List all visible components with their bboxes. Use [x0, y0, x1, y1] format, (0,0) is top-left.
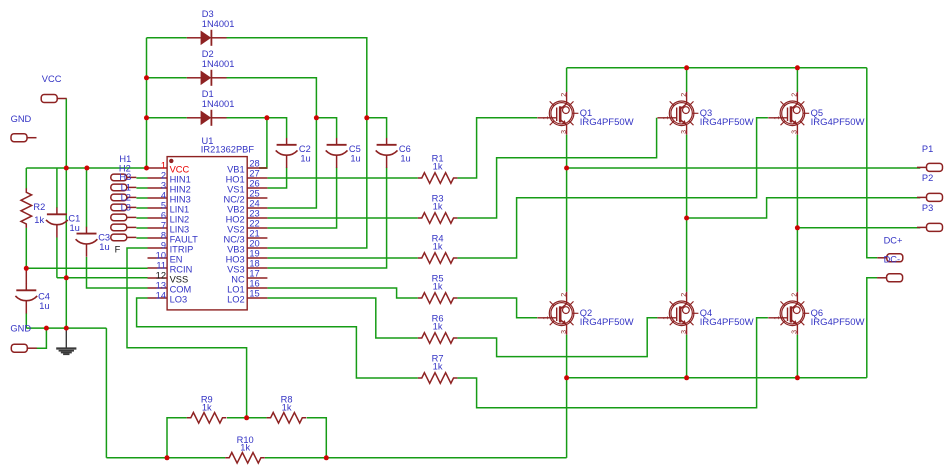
wire C1 bottom: [56, 238, 58, 278]
svg-text:15: 15: [249, 288, 259, 298]
svg-text:D2: D2: [202, 49, 214, 59]
wire VB3 branch to C6 top: [367, 118, 387, 138]
wire P3 line: [797, 227, 920, 229]
wire header pad LIN1: [136, 207, 147, 209]
svg-text:VS1: VS1: [227, 184, 245, 194]
pad header HIN3: [111, 194, 137, 201]
svg-text:18: 18: [249, 258, 259, 268]
wire VS1 C2 bottom to pin 26: [267, 168, 286, 189]
svg-text:2: 2: [561, 93, 568, 97]
junction emitter bus Q4: [684, 375, 689, 380]
svg-text:2: 2: [161, 170, 166, 180]
wire VCC horizontal to pin 1: [26, 167, 147, 169]
wire D2 anode: [147, 77, 187, 79]
U1 pin 3 stub: [148, 187, 168, 189]
svg-text:1k: 1k: [433, 242, 443, 252]
wire DC- rise: [867, 278, 878, 378]
capacitor C4: [15, 284, 37, 314]
U1 pin 21 stub: [247, 237, 267, 239]
resistor R9: [187, 413, 227, 424]
pad P3: [917, 223, 943, 231]
U1 pin 7 stub: [148, 227, 168, 229]
svg-text:P1: P1: [922, 144, 933, 154]
pad header LIN3: [111, 224, 137, 231]
wire header pad HIN1: [136, 177, 147, 179]
svg-text:C2: C2: [299, 144, 311, 154]
svg-text:D1: D1: [202, 89, 214, 99]
svg-text:3: 3: [561, 330, 568, 334]
wire D3 cathode leg: [226, 38, 366, 248]
wire D3 anode: [147, 37, 187, 39]
capacitor C3: [76, 227, 98, 257]
wire P1 line: [567, 167, 921, 169]
svg-text:HIN2: HIN2: [170, 184, 191, 194]
svg-text:1N4001: 1N4001: [202, 59, 235, 69]
svg-text:6: 6: [161, 210, 166, 220]
svg-text:C5: C5: [349, 144, 361, 154]
transistor Q4: [657, 292, 698, 335]
wire phase A node: [566, 135, 568, 292]
wire VS3 C6 bottom to pin 18: [267, 168, 386, 269]
svg-text:LO3: LO3: [170, 294, 188, 304]
svg-text:1k: 1k: [433, 162, 443, 172]
U1 pin 20 stub: [247, 247, 267, 249]
svg-text:1k: 1k: [34, 215, 44, 225]
svg-text:C6: C6: [399, 144, 411, 154]
svg-text:11: 11: [156, 260, 166, 270]
svg-text:COM: COM: [170, 284, 192, 294]
svg-text:LIN1: LIN1: [170, 204, 190, 214]
svg-text:NC/2: NC/2: [224, 194, 245, 204]
junction GND pad: [44, 326, 49, 331]
svg-text:L1: L1: [121, 183, 131, 193]
wire LO1 R5 to Q2 gate: [457, 298, 537, 318]
diode D2: [187, 70, 227, 86]
wire phase C upper: [796, 135, 798, 228]
capacitor C6: [376, 138, 398, 168]
wire RCIN pin 11: [26, 267, 147, 269]
svg-text:1: 1: [774, 316, 781, 320]
svg-text:23: 23: [249, 208, 259, 218]
wire header pad HIN3: [136, 197, 147, 199]
junction bottom bus R8: [324, 455, 329, 460]
ground earth symbol: [56, 328, 76, 354]
pad GND top: [11, 134, 37, 142]
U1 pin 25 stub: [247, 197, 267, 199]
svg-text:9: 9: [161, 240, 166, 250]
svg-text:LIN3: LIN3: [170, 224, 190, 234]
svg-text:L3: L3: [121, 203, 131, 213]
junction phase C: [795, 225, 800, 230]
wire phase C lower: [796, 228, 798, 292]
svg-text:1k: 1k: [433, 282, 443, 292]
junction VB1: [264, 115, 269, 120]
resistor R10: [225, 453, 265, 464]
svg-text:1: 1: [543, 316, 550, 320]
svg-text:1k: 1k: [202, 402, 212, 412]
svg-text:27: 27: [249, 168, 259, 178]
wire header pad FAULT: [136, 237, 147, 239]
svg-text:1k: 1k: [240, 442, 250, 452]
resistor R1: [418, 173, 458, 184]
junction emitter bus Q2: [564, 375, 569, 380]
U1 pin 4 stub: [148, 197, 168, 199]
U1 pin 19 stub: [247, 257, 267, 259]
junction GND earth: [64, 326, 69, 331]
svg-text:4: 4: [161, 190, 166, 200]
wire LO3 R7 to Q6 gate: [457, 318, 768, 408]
U1 pin 6 stub: [148, 217, 168, 219]
wire GND drop to bottom bus: [105, 328, 107, 458]
svg-text:IRG4PF50W: IRG4PF50W: [580, 117, 634, 128]
svg-text:IRG4PF50W: IRG4PF50W: [811, 317, 865, 328]
pad P1: [917, 163, 943, 171]
svg-text:3: 3: [792, 130, 799, 134]
wire Q4 emitter: [686, 335, 688, 378]
svg-text:VS2: VS2: [227, 224, 245, 234]
svg-text:DC+: DC+: [884, 235, 903, 245]
wire VCC diode rail: [146, 38, 148, 168]
junction VB3 C6: [364, 115, 369, 120]
wire Q6 emitter: [796, 335, 798, 378]
svg-text:LO1: LO1: [227, 284, 245, 294]
pad header LIN2: [111, 214, 137, 221]
svg-text:3: 3: [681, 330, 688, 334]
pad DC+: [877, 254, 903, 262]
junction VCC pad feed: [64, 166, 69, 171]
U1 pin 13 stub: [148, 287, 168, 289]
svg-text:H1: H1: [119, 154, 131, 164]
U1 pin 27 stub: [247, 177, 267, 179]
U1 pin 18 stub: [247, 267, 267, 269]
svg-text:D3: D3: [202, 9, 214, 19]
svg-text:P3: P3: [922, 203, 933, 213]
junction VB2 C5: [314, 115, 319, 120]
svg-text:IRG4PF50W: IRG4PF50W: [580, 317, 634, 328]
svg-text:VSS: VSS: [170, 274, 189, 284]
junction bus Q3: [684, 65, 689, 70]
svg-text:17: 17: [249, 268, 259, 278]
svg-text:2: 2: [681, 93, 688, 97]
wire phase B lower: [686, 218, 688, 292]
wire LO2 pin 15 to R6: [267, 298, 417, 338]
U1 pin 11 stub: [148, 267, 168, 269]
svg-text:R2: R2: [33, 202, 45, 212]
wire D1 cathode to C2 top: [226, 118, 286, 138]
junction C3 top: [84, 166, 89, 171]
svg-text:ITRIP: ITRIP: [170, 244, 194, 254]
wire R2 bottom to RCIN: [25, 228, 27, 269]
svg-text:FAULT: FAULT: [170, 234, 199, 244]
wire VSS pin 12 line: [57, 277, 148, 279]
svg-text:RCIN: RCIN: [170, 264, 193, 274]
svg-text:VCC: VCC: [42, 74, 62, 84]
svg-text:1u: 1u: [70, 223, 80, 233]
junction VSS C1: [64, 275, 69, 280]
wire C3 top lead: [86, 168, 88, 227]
junction bus Q5: [795, 65, 800, 70]
svg-text:HO3: HO3: [226, 254, 245, 264]
wire GND line: [26, 327, 106, 329]
svg-text:VB3: VB3: [227, 244, 245, 254]
resistor R7: [418, 373, 458, 384]
svg-text:IR21362PBF: IR21362PBF: [201, 145, 255, 155]
resistor R2: [21, 188, 32, 228]
svg-text:3: 3: [161, 180, 166, 190]
svg-text:3: 3: [792, 330, 799, 334]
wire D1 anode: [147, 117, 187, 119]
U1 pin 28 stub: [247, 167, 267, 169]
junction bottom bus R9: [165, 455, 170, 460]
pad P2: [917, 193, 943, 201]
U1 pin 5 stub: [148, 207, 168, 209]
U1 pin 2 stub: [148, 177, 168, 179]
wire top collector bus: [567, 67, 867, 69]
svg-text:2: 2: [792, 93, 799, 97]
resistor R3: [418, 213, 458, 224]
svg-text:EN: EN: [170, 254, 183, 264]
pad DC-: [877, 274, 903, 282]
svg-text:H3: H3: [119, 172, 131, 182]
svg-text:2: 2: [561, 293, 568, 297]
svg-text:GND: GND: [10, 324, 31, 334]
wire VS2 C5 bottom to pin 22: [267, 168, 336, 229]
wire phase B upper: [686, 135, 688, 218]
wire R2 top lead: [25, 168, 27, 189]
svg-text:1: 1: [161, 160, 166, 170]
pad GND bottom: [11, 344, 37, 352]
svg-text:1: 1: [543, 116, 550, 120]
wire HO3 R4 to Q5 gate: [457, 118, 768, 258]
junction VCC rail D2: [144, 75, 149, 80]
U1 pin 23 stub: [247, 217, 267, 219]
svg-text:2: 2: [681, 293, 688, 297]
svg-text:25: 25: [249, 188, 259, 198]
svg-text:IRG4PF50W: IRG4PF50W: [700, 117, 754, 128]
svg-text:LIN2: LIN2: [170, 214, 190, 224]
capacitor C5: [326, 138, 348, 168]
svg-text:L2: L2: [121, 193, 131, 203]
wire header pad HIN2: [136, 187, 147, 189]
svg-text:12: 12: [156, 270, 166, 280]
svg-text:1k: 1k: [433, 202, 443, 212]
U1 pin 10 stub: [148, 257, 168, 259]
svg-text:IRG4PF50W: IRG4PF50W: [700, 317, 754, 328]
wire VB2 branch to C5 top: [316, 118, 336, 138]
wire HO2 pin 23 to R3: [267, 217, 417, 219]
U1 pin 16 stub: [247, 287, 267, 289]
svg-text:1: 1: [774, 116, 781, 120]
pad header HIN1: [111, 174, 137, 181]
U1 pin 26 stub: [247, 187, 267, 189]
svg-text:HIN3: HIN3: [170, 194, 191, 204]
svg-text:NC: NC: [231, 274, 245, 284]
svg-text:DC-: DC-: [884, 255, 901, 265]
resistor R4: [418, 253, 458, 264]
svg-text:VS3: VS3: [227, 264, 245, 274]
wire pin 28 stub link: [259, 167, 267, 169]
wire HO3 pin 19 to R4: [267, 257, 417, 259]
wire C4 bottom to GND: [25, 313, 27, 328]
wire header pad LIN2: [136, 217, 147, 219]
svg-text:24: 24: [249, 198, 259, 208]
junction phase B: [684, 216, 689, 221]
pad VCC: [41, 95, 66, 103]
svg-text:14: 14: [156, 290, 166, 300]
svg-text:5: 5: [161, 200, 166, 210]
wire VCC pad feed: [65, 99, 67, 169]
pad header FAULT: [111, 234, 137, 241]
capacitor C4 top lead: [25, 268, 27, 284]
svg-text:P2: P2: [922, 173, 933, 183]
U1 pin 9 stub: [148, 247, 168, 249]
wire R8 right leg: [307, 418, 327, 458]
svg-text:16: 16: [249, 278, 259, 288]
svg-text:1u: 1u: [39, 301, 49, 311]
svg-text:LO2: LO2: [227, 294, 245, 304]
wire emitter sense drop: [566, 378, 568, 458]
transistor Q3: [657, 92, 698, 135]
U1 pin 15 stub: [247, 297, 267, 299]
diode D1: [187, 110, 227, 126]
svg-text:1u: 1u: [350, 154, 360, 164]
svg-text:VB2: VB2: [227, 204, 245, 214]
wire DC+ drop: [867, 68, 878, 258]
junction emitter bus Q6: [795, 375, 800, 380]
wire GND pad link: [36, 328, 46, 348]
wire bottom bus right: [265, 457, 567, 459]
svg-text:1k: 1k: [433, 362, 443, 372]
wire LO1 pin 16 to R5: [267, 288, 417, 298]
wire phase B to P2: [687, 198, 921, 218]
wire Q2 emitter: [566, 335, 568, 378]
transistor Q5: [768, 92, 809, 135]
wire COM pin 13 line: [87, 257, 148, 288]
U1 pin 14 stub: [148, 297, 168, 299]
U1 pin 1 stub: [148, 167, 168, 169]
wire ITRIP pin 9 to divider: [127, 248, 247, 418]
svg-text:26: 26: [249, 178, 259, 188]
svg-text:21: 21: [249, 228, 259, 238]
svg-text:1u: 1u: [400, 154, 410, 164]
svg-text:1N4001: 1N4001: [202, 19, 235, 29]
svg-text:10: 10: [156, 250, 166, 260]
svg-text:7: 7: [161, 220, 166, 230]
junction R2 RCIN: [24, 266, 29, 271]
wire LO3 pin 14 to R7: [137, 298, 418, 378]
op-amp U1 IR21362PBF box: [167, 157, 247, 310]
junction divider mid: [244, 415, 249, 420]
transistor Q2: [537, 292, 578, 335]
pad header LIN1: [111, 204, 137, 211]
U1 pin 17 stub: [247, 277, 267, 279]
wire Q3 collector: [686, 68, 688, 92]
wire bottom bus left: [106, 457, 225, 459]
svg-text:20: 20: [249, 238, 259, 248]
transistor Q1: [537, 92, 578, 135]
svg-text:22: 22: [249, 218, 259, 228]
svg-text:1N4001: 1N4001: [202, 99, 235, 109]
svg-text:VB1: VB1: [227, 164, 245, 174]
svg-text:1u: 1u: [99, 242, 109, 252]
U1 pin 8 stub: [148, 237, 168, 239]
U1 pin 12 stub: [148, 277, 168, 279]
svg-text:3: 3: [561, 130, 568, 134]
resistor R8: [267, 413, 307, 424]
svg-text:2: 2: [792, 293, 799, 297]
junction phase A: [564, 166, 569, 171]
U1 pin-1 marker dot: [169, 159, 173, 163]
wire Q5 collector: [796, 68, 798, 92]
junction VCC rail pin1: [144, 166, 149, 171]
wire VCC-VSS vertical: [65, 168, 67, 328]
svg-text:13: 13: [156, 280, 166, 290]
svg-text:1k: 1k: [282, 402, 292, 412]
svg-text:HO2: HO2: [226, 214, 245, 224]
svg-text:1k: 1k: [433, 322, 443, 332]
svg-text:HO1: HO1: [226, 174, 245, 184]
U1 pin 24 stub: [247, 207, 267, 209]
svg-text:F: F: [115, 244, 121, 254]
wire R9 to R8 link: [227, 417, 267, 419]
wire VB1 drop to pin 28: [259, 118, 267, 168]
pad header HIN2: [111, 184, 137, 191]
capacitor C1: [46, 208, 68, 238]
svg-text:1: 1: [663, 116, 670, 120]
svg-text:IRG4PF50W: IRG4PF50W: [811, 117, 865, 128]
U1 pin 22 stub: [247, 227, 267, 229]
svg-text:HIN1: HIN1: [170, 174, 191, 184]
wire Q1 collector: [566, 68, 568, 92]
wire C1 top lead: [56, 168, 58, 208]
svg-text:1u: 1u: [300, 154, 310, 164]
diode D3: [187, 30, 227, 46]
transistor Q6: [768, 292, 809, 335]
resistor R5: [418, 293, 458, 304]
capacitor C2: [276, 138, 298, 168]
svg-text:NC/3: NC/3: [224, 234, 245, 244]
wire HO1 pin 27 to R1: [267, 177, 417, 179]
svg-text:8: 8: [161, 230, 166, 240]
svg-text:VCC: VCC: [170, 164, 190, 174]
svg-text:28: 28: [249, 158, 259, 168]
wire LO2 R6 to Q4 gate: [457, 318, 657, 357]
svg-text:1: 1: [663, 316, 670, 320]
wire header pad LIN3: [136, 227, 147, 229]
wire D2 cathode leg: [226, 78, 316, 208]
wire HO2 R3 to Q3 gate: [457, 118, 656, 218]
wire emitter bus: [567, 377, 867, 379]
wire HO1 R1 to Q1 gate: [457, 118, 537, 178]
svg-text:GND: GND: [11, 114, 32, 124]
wire R9 left leg: [167, 418, 187, 458]
junction VCC rail D1: [144, 115, 149, 120]
svg-text:3: 3: [681, 130, 688, 134]
resistor R6: [418, 333, 458, 344]
svg-text:19: 19: [249, 248, 259, 258]
